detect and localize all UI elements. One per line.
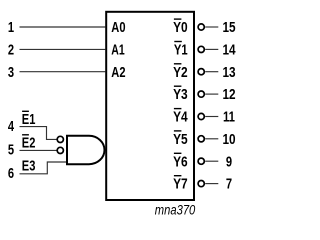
output label Y1 (active low) (174, 41, 188, 59)
wire Y7 to pin7 (205, 183, 218, 185)
svg-text:E3: E3 (22, 159, 36, 175)
pin 10 (222, 132, 235, 148)
svg-text:9: 9 (226, 154, 232, 170)
svg-text:15: 15 (222, 20, 235, 36)
pin 1 (8, 20, 14, 36)
pin 13 (222, 65, 235, 81)
enable label E1 (active low) (22, 111, 36, 128)
IC body U1 (106, 12, 194, 200)
pin 15 (222, 20, 235, 36)
output label Y3 (active low) (173, 86, 188, 104)
svg-text:3: 3 (8, 65, 14, 81)
output label Y2 (active low) (173, 63, 188, 81)
svg-text:Y5: Y5 (173, 132, 188, 148)
svg-text:12: 12 (222, 87, 235, 103)
svg-text:Y0: Y0 (173, 20, 188, 36)
pin 12 (222, 87, 235, 103)
svg-text:2: 2 (8, 43, 14, 59)
output label Y6 (active low) (173, 153, 188, 171)
input label A0 (111, 20, 125, 36)
svg-text:E1: E1 (22, 112, 36, 128)
output label Y4 (active low) (173, 108, 188, 126)
wire Y6 to pin9 (205, 160, 218, 162)
inverter bubble Y3 (198, 91, 204, 97)
pin 2 (8, 43, 14, 59)
wire pin1 to A0 (20, 26, 106, 28)
svg-text:6: 6 (8, 166, 14, 182)
wire pin6 to E3 (20, 162, 67, 174)
svg-text:Y6: Y6 (173, 154, 188, 170)
inverter bubble Y1 (198, 46, 204, 52)
enable label E2 (active low) (22, 134, 36, 152)
inverter bubble Y5 (198, 136, 204, 142)
enable label E3 (22, 159, 36, 175)
inverter bubble Y2 (198, 69, 204, 75)
output label Y0 (active low) (173, 18, 188, 36)
wire Y3 to pin12 (205, 93, 218, 95)
svg-text:Y7: Y7 (173, 177, 188, 193)
output label Y5 (active low) (173, 130, 188, 148)
wire Y1 to pin14 (205, 48, 218, 50)
svg-text:Y4: Y4 (173, 110, 188, 126)
svg-text:Y3: Y3 (173, 87, 188, 103)
svg-text:E2: E2 (22, 136, 36, 152)
svg-text:11: 11 (223, 110, 235, 126)
svg-text:1: 1 (8, 20, 14, 36)
wire pin3 to A2 (20, 71, 106, 73)
svg-text:14: 14 (222, 43, 236, 59)
svg-text:4: 4 (8, 119, 15, 135)
wire pin5 to E2 bubble (20, 149, 57, 151)
pin 5 (8, 143, 14, 159)
wire pin2 to A1 (20, 48, 106, 50)
wire pin4 to E1 bubble (20, 127, 57, 140)
svg-text:Y1: Y1 (174, 43, 188, 59)
pin 14 (222, 43, 236, 59)
inverter bubble E1 (57, 136, 63, 142)
pin 6 (8, 166, 14, 182)
svg-text:Y2: Y2 (173, 65, 188, 81)
svg-text:A2: A2 (111, 65, 125, 81)
wire Y4 to pin11 (205, 116, 218, 118)
inverter bubble Y6 (198, 158, 204, 164)
pin 7 (226, 177, 232, 193)
pin 3 (8, 65, 14, 81)
input label A1 (111, 43, 124, 59)
input label A2 (111, 65, 125, 81)
figure reference label mna370 (155, 203, 196, 218)
inverter bubble Y7 (198, 181, 204, 187)
pin 4 (8, 119, 15, 135)
svg-text:5: 5 (8, 143, 14, 159)
svg-text:A0: A0 (111, 20, 125, 36)
pin 11 (223, 110, 235, 126)
wire Y5 to pin10 (205, 138, 218, 140)
svg-text:mna370: mna370 (155, 203, 196, 218)
output label Y7 (active low) (173, 175, 188, 193)
wire Y2 to pin13 (205, 71, 218, 73)
inverter bubble E2 (57, 147, 63, 153)
pin 9 (226, 154, 232, 170)
svg-text:7: 7 (226, 177, 232, 193)
svg-text:10: 10 (222, 132, 235, 148)
svg-text:13: 13 (222, 65, 235, 81)
svg-text:A1: A1 (111, 43, 124, 59)
inverter bubble Y0 (198, 24, 204, 30)
inverter bubble Y4 (198, 113, 204, 119)
wire Y0 to pin15 (205, 26, 218, 28)
AND gate G1 (enable) (67, 136, 104, 164)
